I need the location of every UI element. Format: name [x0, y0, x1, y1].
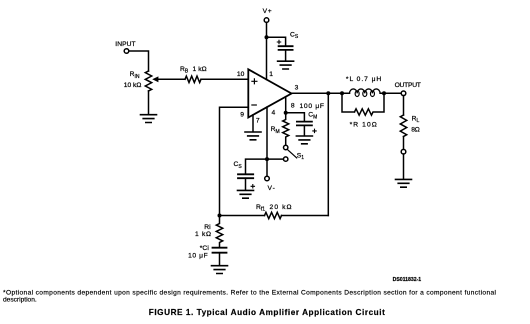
ground under RL: [396, 179, 412, 187]
wire feedback horizontal: [220, 215, 329, 217]
inductor L 0.7uH: [346, 76, 381, 96]
svg-text:8Ω: 8Ω: [411, 126, 420, 133]
svg-text:20 kΩ: 20 kΩ: [270, 204, 292, 211]
svg-text:V-: V-: [268, 185, 275, 192]
op-amp plus input mark: [252, 79, 257, 84]
wire terminal to ground: [403, 154, 405, 179]
svg-text:8: 8: [291, 103, 295, 110]
resistor Ri 1k: [195, 216, 223, 248]
svg-text:DS011832-1: DS011832-1: [393, 277, 422, 283]
wire feedback vertical right: [327, 93, 329, 215]
svg-text:*Optional components dependent: *Optional components dependent upon spec…: [3, 289, 497, 296]
svg-text:S1: S1: [297, 152, 304, 161]
wire OUTPUT to RL: [403, 96, 405, 115]
ground pin 7: [245, 132, 261, 140]
node INPUT terminal: [115, 41, 135, 54]
op-amp minus input mark: [252, 104, 256, 106]
svg-text:9: 9: [240, 112, 244, 119]
wire pin 4 to V-: [266, 107, 268, 176]
svg-text:*Ci: *Ci: [200, 245, 210, 252]
svg-text:4: 4: [272, 110, 276, 117]
svg-text:V+: V+: [263, 8, 272, 15]
resistor Rf1 20k: [256, 204, 292, 219]
ground under CS2: [238, 190, 254, 198]
ground under Ci: [212, 266, 228, 274]
node terminal below RL: [401, 149, 406, 154]
svg-text:CS: CS: [290, 31, 299, 40]
capacitor Ci 10uF: [188, 245, 226, 266]
node V+ terminal: [263, 8, 272, 22]
svg-text:OUTPUT: OUTPUT: [395, 82, 421, 89]
junction V+ / CS: [265, 35, 269, 39]
capacitor CM 100uF: [297, 103, 324, 136]
node V- terminal: [265, 176, 275, 192]
junction Rf1 / Ri / pin9: [218, 214, 222, 218]
ground under CS top: [278, 61, 294, 69]
junction output / feedback: [326, 91, 330, 95]
svg-text:1 kΩ: 1 kΩ: [193, 66, 207, 73]
svg-text:10 μF: 10 μF: [188, 252, 208, 259]
wire RIN bottom to ground: [148, 91, 150, 115]
svg-text:CM: CM: [308, 112, 317, 121]
svg-text:description.: description.: [3, 297, 37, 304]
resistor RB 1k: [180, 66, 207, 83]
wire pin 7 to ground: [252, 115, 254, 132]
svg-text:CS: CS: [234, 161, 243, 170]
svg-text:1: 1: [269, 71, 273, 78]
wire junction to CS2: [246, 159, 268, 174]
svg-text:100 μF: 100 μF: [300, 103, 325, 110]
ground under RIN: [141, 115, 157, 123]
op-amp U1 triangle: [248, 69, 291, 117]
svg-text:3: 3: [295, 85, 299, 92]
svg-text:10 kΩ: 10 kΩ: [124, 82, 142, 89]
wire RB to op-amp pin 10: [201, 78, 248, 80]
node OUTPUT terminal: [395, 82, 421, 95]
wire pin 8 down: [285, 97, 287, 113]
svg-text:RL: RL: [412, 115, 420, 124]
resistor R 10 (parallel damping): [342, 93, 384, 128]
svg-text:RB: RB: [180, 66, 189, 75]
wire junction to switch: [267, 158, 284, 160]
wire V+ to pin 1: [266, 22, 268, 79]
capacitor CS (V+ bypass): [277, 31, 299, 61]
wire op-amp output pin 3: [292, 92, 402, 94]
wire RL to lower terminal: [403, 137, 405, 150]
svg-text:*R 10Ω: *R 10Ω: [350, 121, 377, 128]
potentiometer RIN 10k: [124, 71, 152, 91]
switch S1: [284, 145, 305, 161]
wire INPUT to RIN top: [129, 51, 149, 71]
wire pin 9 to feedback node: [220, 107, 249, 215]
svg-text:FIGURE 1. Typical Audio Amplif: FIGURE 1. Typical Audio Amplifier Applic…: [149, 308, 385, 317]
wire junction to CM: [286, 113, 305, 122]
svg-text:RM: RM: [271, 126, 280, 135]
resistor RM: [271, 113, 289, 146]
svg-text:RIN: RIN: [130, 71, 140, 80]
potentiometer RIN wiper arrow: [152, 76, 185, 82]
svg-text:*L 0.7 μH: *L 0.7 μH: [346, 76, 381, 83]
svg-text:10: 10: [237, 71, 245, 78]
junction L-R right: [382, 91, 386, 95]
junction L-R left: [340, 91, 344, 95]
resistor RL 8: [400, 115, 420, 137]
wire junction to CS: [267, 37, 286, 46]
svg-text:Rf1: Rf1: [256, 204, 265, 213]
ground under CM: [296, 136, 312, 144]
svg-text:7: 7: [256, 117, 260, 124]
svg-text:1 kΩ: 1 kΩ: [195, 231, 211, 238]
junction pin4 / switch / CS2: [265, 157, 269, 161]
svg-text:INPUT: INPUT: [115, 41, 135, 48]
capacitor CS (V- bypass): [234, 161, 255, 190]
junction pin8 / RM / CM: [284, 111, 288, 115]
